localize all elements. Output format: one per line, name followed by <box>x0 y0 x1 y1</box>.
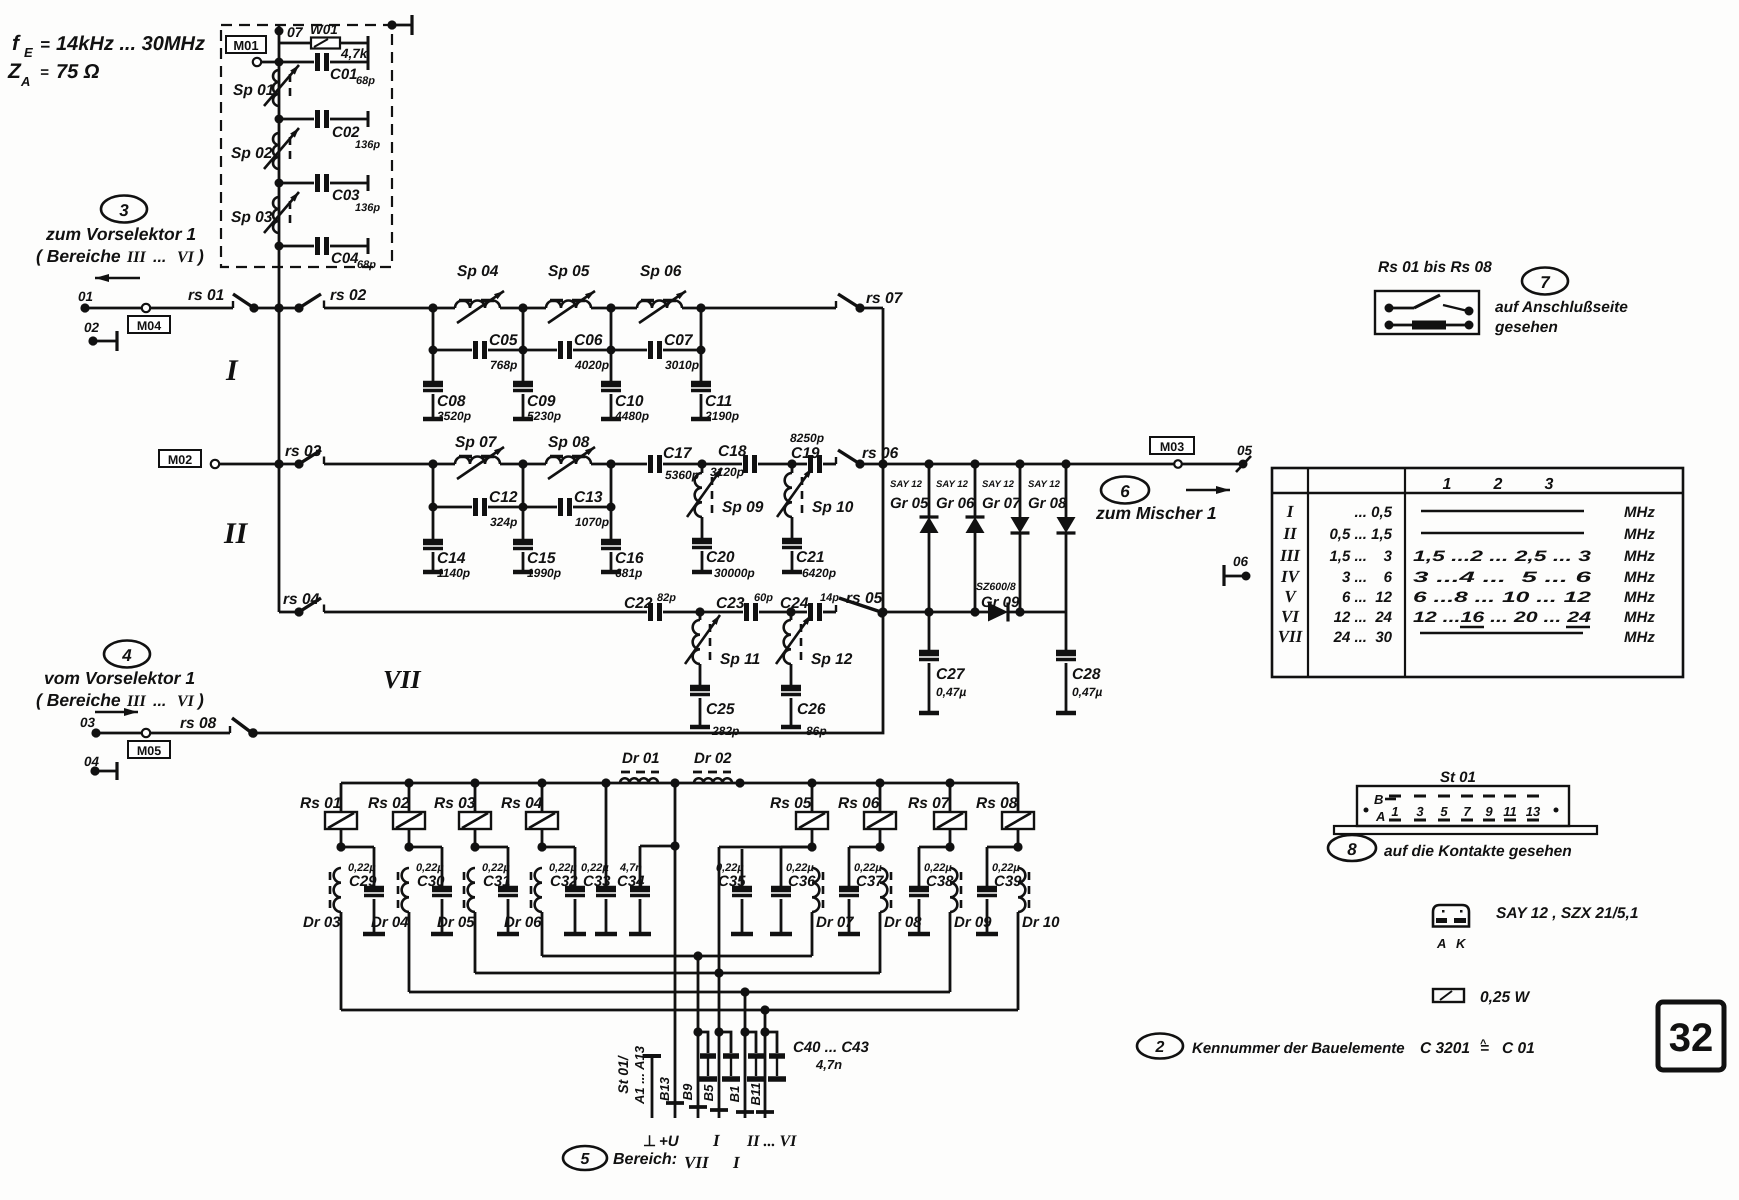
svg-text:Gr 06: Gr 06 <box>936 495 975 512</box>
svg-text:14kHz ... 30MHz: 14kHz ... 30MHz <box>56 33 205 55</box>
svg-text:75 Ω: 75 Ω <box>56 61 100 83</box>
diode Gr05 SAY12 <box>890 459 939 616</box>
inductor Sp10 (variable) <box>777 464 854 517</box>
svg-text:1990p: 1990p <box>527 566 561 580</box>
inductor Sp07 (variable) <box>455 434 504 479</box>
svg-text:I: I <box>1286 502 1295 521</box>
capacitor C31 0.22u <box>475 847 519 934</box>
label St01/A1...A13 (rotated) <box>615 1045 647 1105</box>
svg-text:Sp 05: Sp 05 <box>548 263 590 280</box>
choke Dr 03 <box>303 868 341 931</box>
svg-text:I: I <box>732 1153 741 1172</box>
capacitor C39 0.22u <box>976 847 1022 934</box>
svg-text:4480p: 4480p <box>614 409 649 423</box>
svg-text:2: 2 <box>1155 1039 1165 1056</box>
diode Gr07 SAY12 <box>982 459 1030 616</box>
svg-text:C05: C05 <box>489 332 518 349</box>
terminal 05 <box>1236 443 1253 472</box>
svg-text:V: V <box>1284 587 1297 606</box>
svg-text:07: 07 <box>287 24 304 40</box>
node Sp12 <box>786 607 795 616</box>
Bereich symbols row <box>643 1131 797 1172</box>
label M02 <box>159 450 201 467</box>
svg-text:rs 06: rs 06 <box>862 445 899 462</box>
svg-text:=: = <box>40 35 50 54</box>
capacitor C22 82p <box>624 592 700 621</box>
svg-text:768p: 768p <box>490 358 517 372</box>
capacitor C37 0.22u <box>838 847 884 934</box>
wire Dr 05 to St01 bus <box>474 912 477 973</box>
svg-text:SAY 12 , SZX 21/5,1: SAY 12 , SZX 21/5,1 <box>1496 905 1638 922</box>
wire rs08 to right rail <box>253 612 883 733</box>
svg-text:Rs 05: Rs 05 <box>770 795 812 812</box>
svg-text:Kennummer der Bauelemente: Kennummer der Bauelemente <box>1192 1040 1405 1057</box>
svg-text:SAY 12: SAY 12 <box>936 479 969 490</box>
svg-text:C30: C30 <box>417 873 445 890</box>
svg-text:282p: 282p <box>711 724 739 738</box>
wire main vertical in input box <box>278 25 281 308</box>
label M03 <box>1150 437 1194 454</box>
svg-text:Dr 06: Dr 06 <box>504 914 542 931</box>
svg-text:⊥: ⊥ <box>643 1133 656 1150</box>
node row I col1 <box>428 303 437 312</box>
capacitor C20 30000p <box>692 517 755 580</box>
svg-text:1,5 ... 3: 1,5 ... 3 <box>1329 548 1392 565</box>
svg-text:C21: C21 <box>796 549 824 566</box>
switch rs05 <box>836 590 887 618</box>
inductor Sp02 (variable) <box>231 128 299 169</box>
svg-text:C38: C38 <box>926 873 954 890</box>
svg-text:C 01: C 01 <box>1502 1040 1535 1057</box>
svg-text:E: E <box>24 45 33 60</box>
svg-text:Dr 02: Dr 02 <box>694 750 732 767</box>
capacitor C18 3120p <box>702 443 792 479</box>
capacitor C09 5230p <box>513 350 561 423</box>
svg-text:III: III <box>1279 546 1301 565</box>
connector circle on wire 03 <box>142 729 150 737</box>
svg-text:C31: C31 <box>483 873 511 890</box>
svg-text:Bereich:: Bereich: <box>613 1151 677 1168</box>
svg-text:Rs 07: Rs 07 <box>908 795 951 812</box>
svg-text:Dr 03: Dr 03 <box>303 914 341 931</box>
svg-text:VII: VII <box>684 1153 710 1172</box>
wire Dr 10 to St01 bus <box>1017 912 1020 1010</box>
svg-text:II: II <box>223 517 249 550</box>
svg-text:C32: C32 <box>550 873 578 890</box>
svg-text:14p: 14p <box>820 592 839 604</box>
svg-text:C12: C12 <box>489 489 518 506</box>
inductor Sp05 (variable) <box>546 263 595 323</box>
svg-text:=: = <box>40 64 49 81</box>
callout 3 zum Vorselektor 1 <box>36 196 204 267</box>
relay Rs 05 <box>770 778 828 851</box>
wire Dr 03 to St01 bus <box>340 912 343 1010</box>
capacitor C24 14p <box>780 592 839 621</box>
svg-text:zum Mischer 1: zum Mischer 1 <box>1095 503 1217 523</box>
capacitor C38 0.22u <box>908 847 954 934</box>
svg-text:+U: +U <box>659 1133 680 1150</box>
svg-text:M05: M05 <box>137 744 161 758</box>
svg-text:Gr 05: Gr 05 <box>890 495 929 512</box>
switch rs08 <box>180 715 258 738</box>
svg-text:4: 4 <box>121 646 132 665</box>
svg-text:Rs 01 bis Rs 08: Rs 01 bis Rs 08 <box>1378 259 1492 276</box>
choke Dr 06 <box>504 868 542 931</box>
svg-text:60p: 60p <box>754 592 773 604</box>
diode Gr06 SAY12 <box>936 459 985 616</box>
svg-text:MHz: MHz <box>1624 548 1655 565</box>
svg-text:C11: C11 <box>705 393 732 410</box>
svg-text:Sp 04: Sp 04 <box>457 263 499 280</box>
svg-text:II ... VI: II ... VI <box>746 1133 797 1150</box>
svg-text:Dr 08: Dr 08 <box>884 914 922 931</box>
svg-text:C09: C09 <box>527 393 556 410</box>
wire terminal 01 to rs01 <box>85 307 233 310</box>
svg-text:1: 1 <box>1443 476 1452 493</box>
filter row I coupling line <box>432 308 435 350</box>
svg-text:M03: M03 <box>1160 440 1184 454</box>
svg-text:St 01: St 01 <box>1440 769 1476 786</box>
svg-text:C01: C01 <box>330 66 358 83</box>
svg-text:VI: VI <box>1281 607 1300 626</box>
svg-text:Sp 07: Sp 07 <box>455 434 498 451</box>
capacitor C08 3520p <box>423 350 471 423</box>
svg-text:rs 02: rs 02 <box>330 287 367 304</box>
inductor Sp01 (variable) <box>233 65 299 106</box>
svg-text:3: 3 <box>1545 476 1554 493</box>
label M05 <box>128 741 170 758</box>
svg-text:( Bereiche: ( Bereiche <box>36 246 121 266</box>
svg-text:Z: Z <box>7 60 22 83</box>
svg-text:5: 5 <box>1440 804 1448 819</box>
switch rs07 <box>836 290 904 313</box>
capacitor C34 4.7n <box>617 841 680 934</box>
svg-text:MHz: MHz <box>1624 589 1655 606</box>
frequency range table <box>1272 468 1683 677</box>
svg-text:f: f <box>12 32 21 55</box>
node bus row II <box>274 459 283 468</box>
svg-text:III: III <box>126 249 146 266</box>
svg-text:III: III <box>126 693 146 710</box>
svg-text:3 ...4 ... 5 ... 6: 3 ...4 ... 5 ... 6 <box>1413 569 1592 586</box>
svg-text:C23: C23 <box>716 595 745 612</box>
label M04 <box>128 316 170 333</box>
svg-text:7: 7 <box>1540 273 1551 292</box>
svg-text:6420p: 6420p <box>802 566 836 580</box>
capacitor C26 86p <box>781 664 827 738</box>
capacitor C10 4480p <box>601 350 649 423</box>
svg-text:13: 13 <box>1526 804 1541 819</box>
node row I col2 <box>518 303 527 312</box>
svg-text:Rs 02: Rs 02 <box>368 795 410 812</box>
svg-text:3: 3 <box>1416 804 1424 819</box>
inductor Dr02 <box>693 750 732 783</box>
diode Gr08 SAY12 <box>1028 459 1076 612</box>
svg-text:Rs 01: Rs 01 <box>300 795 341 812</box>
svg-text:6 ... 12: 6 ... 12 <box>1342 589 1393 606</box>
svg-text:C36: C36 <box>788 873 816 890</box>
svg-text:VI: VI <box>177 249 195 266</box>
arrow to Vorselektor (left) <box>95 277 140 279</box>
inductor Sp03 (variable) <box>231 192 299 233</box>
capacitor C36 0.22u <box>770 847 816 934</box>
node C03 <box>275 179 284 188</box>
svg-text:C13: C13 <box>574 489 603 506</box>
svg-text:Sp 12: Sp 12 <box>811 651 853 668</box>
svg-text:B11: B11 <box>748 1083 763 1106</box>
svg-text:C29: C29 <box>349 873 377 890</box>
svg-text:5: 5 <box>581 1151 591 1168</box>
svg-text:24 ... 30: 24 ... 30 <box>1333 629 1393 646</box>
svg-text:MHz: MHz <box>1624 629 1655 646</box>
svg-text:2190p: 2190p <box>704 409 739 423</box>
svg-text:11: 11 <box>1503 804 1517 819</box>
switch rs02 <box>279 287 433 313</box>
node row II col3 <box>606 459 615 468</box>
svg-text:B: B <box>1374 792 1383 807</box>
relay Rs 01 <box>300 783 357 852</box>
wire Dr 08 to St01 bus <box>879 912 882 973</box>
svg-text:zum Vorselektor 1: zum Vorselektor 1 <box>45 224 196 244</box>
svg-text:Dr 10: Dr 10 <box>1022 914 1060 931</box>
node bus row I <box>274 303 283 312</box>
svg-text:Rs 08: Rs 08 <box>976 795 1018 812</box>
svg-text:A: A <box>1436 936 1446 951</box>
svg-text:C24: C24 <box>780 595 809 612</box>
svg-text:C06: C06 <box>574 332 603 349</box>
svg-text:681p: 681p <box>615 566 642 580</box>
switch rs01 <box>188 287 279 313</box>
svg-text:Dr 05: Dr 05 <box>437 914 475 931</box>
svg-text:0,5 ... 1,5: 0,5 ... 1,5 <box>1329 526 1392 543</box>
svg-text:06: 06 <box>1233 554 1249 569</box>
connector circle M03 <box>1174 460 1182 468</box>
svg-text:^: ^ <box>1480 1038 1487 1050</box>
svg-text:01: 01 <box>78 289 93 304</box>
node row II col2 <box>518 459 527 468</box>
svg-text:auf Anschlußseite: auf Anschlußseite <box>1495 299 1628 316</box>
svg-text:K: K <box>1456 936 1467 951</box>
capacitor C04 68p <box>279 237 376 271</box>
svg-text:C33: C33 <box>583 873 611 890</box>
node C04 <box>275 242 284 251</box>
svg-text:8250p: 8250p <box>790 431 824 445</box>
wire right rail rs07-rs06-rs05 <box>882 308 885 612</box>
svg-text:SAY 12: SAY 12 <box>890 479 923 490</box>
svg-text:1140p: 1140p <box>437 566 470 580</box>
svg-text:rs 05: rs 05 <box>846 590 883 607</box>
terminal 06 <box>1224 554 1251 586</box>
svg-text:( Bereiche: ( Bereiche <box>36 690 121 710</box>
svg-text:Sp 01: Sp 01 <box>233 82 274 99</box>
svg-text:C14: C14 <box>437 550 466 567</box>
svg-text:M04: M04 <box>137 319 161 333</box>
svg-text:0,47µ: 0,47µ <box>936 685 966 699</box>
svg-text:gesehen: gesehen <box>1494 319 1558 336</box>
svg-text:3010p: 3010p <box>665 358 699 372</box>
svg-text:1,5 ...2 ... 2,5 ... 3: 1,5 ...2 ... 2,5 ... 3 <box>1413 548 1592 565</box>
diode package SAY12/SZX21 <box>1433 905 1638 951</box>
callout 6 zum Mischer 1 <box>1095 477 1217 524</box>
capacitor C21 6420p <box>782 517 836 580</box>
capacitor C30 0.22u <box>409 847 453 934</box>
input unit dashed box <box>221 25 392 267</box>
connector St01 pin A1..A13 <box>643 1056 661 1118</box>
capacitor C13 1070p <box>515 489 611 529</box>
callout 4 vom Vorselektor 1 <box>36 641 204 711</box>
svg-text:C19: C19 <box>791 445 820 462</box>
svg-text:rs 04: rs 04 <box>283 591 320 608</box>
svg-text:Sp 08: Sp 08 <box>548 434 590 451</box>
svg-text:vom Vorselektor 1: vom Vorselektor 1 <box>44 668 195 688</box>
svg-text:A1 ... A13: A1 ... A13 <box>632 1045 647 1105</box>
svg-text:02: 02 <box>84 320 100 335</box>
capacitor C16 681p <box>601 507 644 580</box>
svg-text:SAY 12: SAY 12 <box>1028 479 1061 490</box>
svg-text:C08: C08 <box>437 393 466 410</box>
node C02 <box>275 115 284 124</box>
capacitor C14 1140p <box>423 507 470 580</box>
wire routing line y1010 Dr03-Dr10 <box>341 1009 1018 1012</box>
node Dr01-Dr02 junction <box>670 778 679 787</box>
svg-text:12 ...16 ... 20 ... 24: 12 ...16 ... 20 ... 24 <box>1413 609 1592 626</box>
svg-text:6: 6 <box>1120 482 1130 501</box>
svg-text:Dr 01: Dr 01 <box>622 750 660 767</box>
capacitor C01 68p <box>283 53 375 87</box>
relay Rs 04 <box>501 778 558 851</box>
callout 7 auf Anschlussseite gesehen <box>1494 268 1628 337</box>
switch rs03 <box>279 443 433 469</box>
svg-text:): ) <box>196 690 204 710</box>
capacitor C07 3010p <box>601 332 701 372</box>
svg-text:SAY 12: SAY 12 <box>982 479 1015 490</box>
svg-text:Sp 06: Sp 06 <box>640 263 682 280</box>
svg-text:6 ...8 ... 10 ... 12: 6 ...8 ... 10 ... 12 <box>1413 589 1592 606</box>
svg-text:30000p: 30000p <box>714 566 755 580</box>
svg-text:Sp 09: Sp 09 <box>722 499 764 516</box>
annotation ZA = 75 Ohm <box>7 60 100 89</box>
svg-text:C18: C18 <box>718 443 747 460</box>
svg-text:68p: 68p <box>356 75 375 87</box>
wire Sp06 to rs07 <box>701 307 836 310</box>
wire Dr 09 to St01 bus <box>949 912 952 992</box>
svg-text:Sp 02: Sp 02 <box>231 145 273 162</box>
node row I col4 <box>696 303 705 312</box>
svg-text:136p: 136p <box>355 202 380 214</box>
svg-text:B1: B1 <box>727 1086 742 1103</box>
svg-text:auf die Kontakte gesehen: auf die Kontakte gesehen <box>1384 843 1572 860</box>
choke Dr 09 <box>950 868 992 931</box>
svg-text:B9: B9 <box>680 1083 695 1100</box>
svg-text:MHz: MHz <box>1624 609 1655 626</box>
svg-text:M01: M01 <box>233 38 258 53</box>
capacitor C17 5360p <box>611 445 702 482</box>
svg-text:...: ... <box>153 249 166 266</box>
annotation fE = 14kHz...30MHz <box>12 32 205 60</box>
svg-text:B5: B5 <box>701 1084 716 1101</box>
svg-text:Gr 08: Gr 08 <box>1028 495 1067 512</box>
svg-text:C07: C07 <box>664 332 694 349</box>
wire routing line y973 Dr05-Dr08 <box>475 972 880 975</box>
svg-text:C10: C10 <box>615 393 644 410</box>
svg-text:5230p: 5230p <box>527 409 561 423</box>
bus bar right of W01/C01 <box>367 36 370 70</box>
svg-text:): ) <box>196 246 204 266</box>
capacitor C11 2190p <box>691 350 739 423</box>
svg-text:Sp 03: Sp 03 <box>231 209 273 226</box>
svg-text:MHz: MHz <box>1624 569 1655 586</box>
capacitors C40...C43 4.7n <box>693 1027 869 1079</box>
switch rs04 <box>279 591 647 617</box>
inductor Sp11 (variable) <box>685 612 760 668</box>
inductor Sp08 (variable) <box>546 434 595 479</box>
svg-text:C20: C20 <box>706 549 735 566</box>
svg-text:Rs 03: Rs 03 <box>434 795 476 812</box>
svg-text:C27: C27 <box>936 666 966 683</box>
svg-text:SZ600/8: SZ600/8 <box>976 581 1016 593</box>
terminal 04 <box>84 754 117 780</box>
svg-text:... 0,5: ... 0,5 <box>1354 504 1392 521</box>
capacitor C32 0.22u <box>542 847 586 934</box>
svg-text:MHz: MHz <box>1624 526 1655 543</box>
relay Rs 03 <box>434 778 491 851</box>
choke Dr 10 <box>1018 868 1060 931</box>
svg-text:A: A <box>1375 809 1385 824</box>
wire routing line y956 Dr06-Dr07 <box>542 955 812 958</box>
inductor Sp06 (variable) <box>637 263 686 323</box>
svg-text:W01: W01 <box>310 22 338 37</box>
svg-text:C25: C25 <box>706 701 735 718</box>
resistor package 0.25W <box>1433 989 1530 1006</box>
svg-text:St 01/: St 01/ <box>615 1054 631 1093</box>
choke Dr 05 <box>437 868 475 931</box>
filter row II coupling line <box>432 464 435 507</box>
svg-text:C28: C28 <box>1072 666 1101 683</box>
terminal 02 <box>84 320 117 351</box>
svg-text:0,25 W: 0,25 W <box>1480 989 1530 1006</box>
capacitor C27 0.47u <box>919 612 966 713</box>
wire B13 vertical <box>674 783 677 1118</box>
svg-text:VI: VI <box>177 693 195 710</box>
svg-text:9: 9 <box>1485 804 1493 819</box>
capacitor C35 0.22u <box>716 847 812 934</box>
capacitor C25 282p <box>690 664 739 738</box>
arrow from Vorselektor (right) <box>95 711 138 713</box>
callout 8 auf die Kontakte gesehen <box>1328 835 1572 861</box>
svg-text:II: II <box>1282 524 1298 543</box>
svg-text:C16: C16 <box>615 550 644 567</box>
inductor Dr01 <box>620 750 660 783</box>
svg-text:04: 04 <box>84 754 100 769</box>
inductor Sp12 (variable) <box>776 612 853 668</box>
capacitor C28 0.47u <box>1056 612 1102 713</box>
svg-text:A: A <box>20 74 30 89</box>
choke Dr 07 <box>812 868 854 931</box>
relay Rs 08 <box>976 783 1034 852</box>
capacitor C19 8250p <box>790 431 836 473</box>
svg-text:C34: C34 <box>617 873 645 890</box>
svg-text:Gr 07: Gr 07 <box>982 495 1021 512</box>
svg-text:86p: 86p <box>806 724 827 738</box>
pin labels rotated <box>657 1076 763 1105</box>
svg-text:C17: C17 <box>663 445 693 462</box>
svg-text:4020p: 4020p <box>574 358 609 372</box>
svg-text:4,7n: 4,7n <box>815 1057 842 1072</box>
terminal top right of input box <box>387 15 412 35</box>
connector circle M02 <box>211 460 279 468</box>
wire diode bottom rail <box>883 611 988 614</box>
svg-text:C22: C22 <box>624 595 653 612</box>
